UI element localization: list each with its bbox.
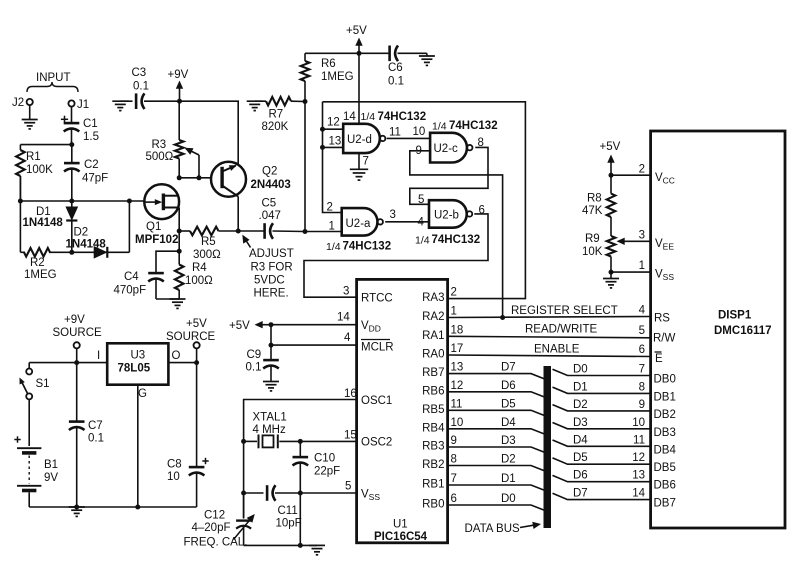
wire R6 junction down to C5 node: [304, 102, 306, 232]
svg-text:R5: R5: [201, 236, 216, 248]
svg-text:1: 1: [639, 260, 645, 272]
potentiometer R9 10K: [582, 233, 615, 272]
svg-text:MCLR: MCLR: [361, 342, 394, 354]
wire REGISTER SELECT RA2 to RS: [448, 317, 651, 318]
bus wire RB3 D3: [448, 447, 545, 453]
svg-text:2: 2: [639, 164, 645, 176]
svg-text:820K: 820K: [262, 121, 289, 133]
svg-text:1MEG: 1MEG: [321, 71, 354, 83]
svg-text:C7: C7: [88, 420, 103, 432]
node R6/R7: [303, 99, 308, 104]
bus wire DB1 D1: [553, 387, 651, 393]
U3 ground lead: [137, 385, 139, 507]
svg-text:G: G: [138, 388, 147, 400]
svg-text:+9V: +9V: [64, 314, 85, 326]
svg-text:U2-a: U2-a: [346, 218, 372, 230]
nand gate U2-d 74HC132: [327, 111, 426, 153]
switch S1: [20, 363, 50, 400]
svg-text:+5V: +5V: [186, 318, 207, 330]
bottom input rail: [19, 176, 21, 252]
svg-text:16: 16: [344, 388, 357, 400]
bus wire DB4 D4: [553, 440, 651, 446]
wire +5V down to U2-d pin 14: [358, 53, 360, 124]
bus wire RB0 D0: [448, 505, 545, 511]
svg-text:MPF102: MPF102: [135, 234, 178, 246]
svg-text:D5: D5: [501, 398, 516, 410]
node +5V/VCC: [609, 173, 614, 178]
svg-text:Q1: Q1: [146, 221, 161, 233]
svg-text:U3: U3: [131, 350, 146, 362]
svg-text:INPUT: INPUT: [36, 72, 71, 84]
svg-text:1.5: 1.5: [83, 131, 99, 143]
svg-text:FREQ. CAL.: FREQ. CAL.: [184, 537, 248, 549]
resistor R4 100ohm: [175, 231, 213, 299]
node input 12: [320, 127, 325, 132]
svg-text:U2-c: U2-c: [434, 143, 459, 155]
node VDD/C9: [269, 322, 274, 327]
svg-text:0.1: 0.1: [246, 362, 262, 374]
battery B1 9V: [14, 399, 58, 507]
svg-text:13: 13: [632, 470, 645, 482]
U1 right pin names: [422, 292, 445, 510]
node +5V source: [194, 360, 199, 365]
power +5V arrow at VDD: [229, 320, 271, 332]
svg-text:17: 17: [451, 343, 464, 355]
bus wire RB4 D4: [448, 429, 545, 435]
svg-text:D1: D1: [573, 381, 588, 393]
supply top rail: [29, 362, 107, 364]
svg-text:12: 12: [451, 380, 464, 392]
svg-text:C5: C5: [262, 198, 277, 210]
svg-text:10: 10: [451, 417, 464, 429]
svg-text:D0: D0: [501, 493, 516, 505]
node: C1/R1/C2 junction: [69, 142, 74, 147]
bus wire RB6 D6: [448, 392, 545, 398]
svg-text:1N4148: 1N4148: [23, 217, 64, 229]
svg-text:7: 7: [451, 473, 457, 485]
data bus bar: [544, 366, 552, 528]
svg-text:C9: C9: [247, 349, 262, 361]
svg-text:J2: J2: [12, 97, 24, 109]
bus wire RB2 D2: [448, 466, 545, 472]
svg-text:7: 7: [363, 156, 369, 168]
svg-text:DB1: DB1: [654, 391, 676, 403]
svg-text:C3: C3: [132, 67, 147, 79]
svg-text:D3: D3: [501, 435, 516, 447]
ground at display VSS: [603, 272, 619, 288]
svg-text:RB7: RB7: [422, 367, 444, 379]
svg-text:22pF: 22pF: [314, 466, 340, 478]
svg-text:R9: R9: [585, 233, 600, 245]
svg-text:C8: C8: [167, 459, 182, 471]
svg-text:10K: 10K: [582, 246, 603, 258]
wire OSC1: [244, 400, 357, 519]
svg-text:C12: C12: [204, 510, 225, 522]
oscillator bottom rail: [244, 544, 317, 546]
svg-text:C6: C6: [388, 62, 403, 74]
resistor R8 47K: [582, 175, 615, 236]
svg-text:DB4: DB4: [654, 444, 677, 456]
bus wire RB7 D7: [448, 374, 545, 380]
svg-text:6: 6: [639, 344, 645, 356]
ground at C3: [112, 101, 132, 110]
node bottom rail/C7: [74, 505, 79, 510]
svg-text:4: 4: [639, 305, 646, 317]
svg-text:3: 3: [639, 230, 645, 242]
svg-text:D2: D2: [501, 454, 516, 466]
node bottom rail/C10: [298, 543, 303, 548]
svg-text:0.1: 0.1: [133, 81, 149, 93]
display pin numbers: [632, 164, 645, 500]
wire READ/WRITE RA1 to R/W: [448, 336, 651, 338]
svg-text:D2: D2: [573, 399, 588, 411]
svg-text:D7: D7: [501, 362, 516, 374]
svg-text:12: 12: [327, 117, 340, 129]
transistor Q1 MPF102: [135, 184, 179, 246]
svg-text:RB0: RB0: [422, 499, 444, 511]
node R9/VSS: [609, 270, 614, 275]
svg-text:RTCC: RTCC: [361, 293, 393, 305]
svg-text:10: 10: [632, 417, 645, 429]
svg-text:5: 5: [639, 325, 645, 337]
node R2/D1/D2: [69, 250, 74, 255]
svg-text:300Ω: 300Ω: [193, 249, 221, 261]
wire Q1 source rail down: [178, 208, 180, 232]
node rail/R5: [177, 229, 182, 234]
svg-text:+5V: +5V: [600, 141, 621, 153]
node C11/C10/VSS: [298, 491, 303, 496]
svg-text:RA1: RA1: [422, 330, 444, 342]
wire VDD: [271, 324, 357, 326]
U1 labels: [361, 293, 428, 544]
U1 left pin numbers: [337, 286, 357, 493]
input bus wire: [20, 200, 144, 202]
svg-text:74HC132: 74HC132: [432, 234, 481, 246]
power +5V at gates: [346, 25, 367, 53]
resistor R7 820K: [262, 97, 306, 133]
svg-text:RA0: RA0: [422, 349, 444, 361]
svg-text:1MEG: 1MEG: [24, 269, 57, 281]
svg-text:9: 9: [639, 399, 645, 411]
display DISP1 DMC16117 box: [651, 131, 785, 528]
svg-text:11: 11: [389, 127, 401, 139]
svg-text:13: 13: [451, 362, 464, 374]
node crystal/C10/OSC2: [298, 439, 303, 444]
wire U2-d output to U2-c: [387, 137, 431, 139]
svg-text:D2: D2: [74, 227, 89, 239]
capacitor C6 0.1: [359, 46, 427, 88]
svg-text:D4: D4: [501, 417, 516, 429]
node input 13: [320, 145, 325, 150]
node rail/base wire: [177, 175, 182, 180]
svg-text:100K: 100K: [26, 164, 53, 176]
svg-text:R1: R1: [26, 151, 41, 163]
svg-text:11: 11: [633, 434, 645, 446]
svg-text:9: 9: [451, 435, 457, 447]
svg-text:RB5: RB5: [422, 404, 444, 416]
capacitor C11 10pF: [267, 485, 357, 529]
ground at R7: [247, 101, 266, 110]
svg-text:0.1: 0.1: [88, 433, 104, 445]
capacitor C1 1.5: [61, 107, 99, 145]
resistor R1 100K: [16, 145, 53, 201]
nand gate U2-c 74HC132: [416, 120, 498, 163]
svg-text:+5V: +5V: [229, 320, 250, 332]
wire RA3 feedback net: [323, 102, 526, 299]
svg-text:RS: RS: [654, 313, 670, 325]
svg-text:1/4: 1/4: [415, 235, 430, 247]
bus wire DB2 D2: [553, 405, 651, 411]
svg-text:2: 2: [451, 287, 457, 299]
connector J1: [68, 99, 89, 111]
wire MCLR: [271, 344, 357, 346]
node bottom rail/G lead: [135, 505, 140, 510]
regulator U3 78L05: [97, 343, 181, 400]
node RA2/U2-c pin9 net: [500, 315, 505, 320]
nand gate U2-a 74HC132: [326, 202, 396, 254]
node +5V/C6: [357, 51, 362, 56]
svg-text:14: 14: [337, 312, 350, 324]
svg-text:14: 14: [343, 111, 356, 123]
node OSC1 rail/C11: [241, 491, 246, 496]
IC U1 PIC16C54 box: [357, 279, 448, 542]
svg-text:DB0: DB0: [654, 374, 676, 386]
svg-text:Q2: Q2: [262, 166, 277, 178]
supply bottom rail: [29, 506, 196, 508]
wire Q2 collector down: [237, 196, 239, 231]
bus wire DB5 D5: [553, 458, 651, 464]
wire U2-a output 3 to U2-b input 4: [385, 221, 429, 223]
wire VCC: [611, 174, 651, 176]
svg-text:+9V: +9V: [168, 69, 189, 81]
svg-text:U2-d: U2-d: [347, 134, 372, 146]
display pin names: [653, 172, 676, 510]
capacitor C9 0.1: [246, 325, 279, 382]
svg-text:2N4403: 2N4403: [251, 179, 291, 191]
svg-text:470pF: 470pF: [114, 285, 147, 297]
svg-text:C11: C11: [278, 505, 298, 517]
svg-text:OSC2: OSC2: [361, 437, 392, 449]
svg-text:8: 8: [451, 454, 457, 466]
diode D2 1N4148: [66, 227, 108, 258]
svg-text:C10: C10: [314, 453, 335, 465]
resistor R6 1MEG: [301, 53, 354, 101]
capacitor C3 0.1: [132, 67, 180, 109]
wire U2-d input 12: [323, 128, 344, 130]
svg-text:11: 11: [451, 398, 463, 410]
ground at C6: [419, 53, 435, 65]
svg-text:SOURCE: SOURCE: [53, 327, 103, 339]
bus wire DB6 D6: [553, 475, 651, 481]
node rail/C4 branch: [177, 249, 182, 254]
svg-text:ENABLE: ENABLE: [534, 344, 580, 356]
capacitor C5 .047: [238, 198, 304, 239]
svg-text:OSC1: OSC1: [361, 395, 392, 407]
wire to R1: [20, 144, 71, 146]
svg-text:O: O: [172, 350, 181, 362]
crystal XTAL1 4MHz: [244, 412, 357, 449]
svg-text:8: 8: [639, 381, 645, 393]
svg-text:5: 5: [345, 481, 351, 493]
capacitor C2 47pF: [64, 145, 108, 201]
svg-text:D4: D4: [573, 434, 588, 446]
svg-text:R3: R3: [152, 139, 167, 151]
node Q2 collector/R5/C5: [236, 229, 241, 234]
wire D2 up to bus: [128, 201, 130, 252]
svg-text:R7: R7: [269, 109, 284, 121]
svg-text:D0: D0: [573, 364, 588, 376]
wire U2-d input 13: [323, 146, 344, 148]
svg-text:4 MHz: 4 MHz: [253, 424, 286, 436]
node C5/U2-a pin1/bias: [303, 229, 308, 234]
wire +9V to Q2 emitter: [180, 101, 239, 163]
svg-text:1N4148: 1N4148: [66, 239, 107, 251]
svg-text:4: 4: [344, 332, 351, 344]
svg-text:HERE.: HERE.: [254, 288, 289, 300]
wire VSS with C11: [244, 492, 264, 494]
bus wire DB3 D3: [553, 423, 651, 429]
bus wire RB5 D5: [448, 410, 545, 416]
svg-text:D6: D6: [573, 470, 588, 482]
node wiper/base wire: [197, 175, 202, 180]
bus wire DB0 D0: [553, 369, 651, 375]
svg-text:R6: R6: [321, 58, 336, 70]
svg-text:D7: D7: [573, 488, 588, 500]
capacitor C8 10: [167, 363, 209, 507]
svg-text:DB2: DB2: [654, 409, 676, 421]
svg-text:R4: R4: [192, 262, 207, 274]
svg-text:4: 4: [418, 217, 425, 229]
svg-text:READ/WRITE: READ/WRITE: [525, 324, 598, 336]
svg-text:1/4: 1/4: [326, 241, 341, 253]
svg-text:10: 10: [167, 471, 180, 483]
svg-text:100Ω: 100Ω: [185, 275, 213, 287]
svg-text:6: 6: [451, 493, 457, 505]
node OSC1 rail/crystal: [241, 439, 246, 444]
wire RA3 net down to U2-a pin 2: [323, 102, 342, 213]
svg-text:REGISTER SELECT: REGISTER SELECT: [511, 305, 618, 317]
svg-text:+5V: +5V: [346, 25, 367, 37]
svg-text:RA3: RA3: [422, 292, 444, 304]
wire +5V to R6: [305, 52, 359, 54]
potentiometer R3 500ohm: [146, 101, 184, 178]
node +9V/rail: [74, 360, 79, 365]
R9 wiper from VEE: [617, 238, 651, 245]
svg-text:DB5: DB5: [654, 462, 676, 474]
svg-text:DB6: DB6: [654, 480, 676, 492]
R3 wiper arm: [185, 148, 200, 178]
svg-text:DMC16117: DMC16117: [714, 325, 772, 337]
ground at C9: [263, 382, 279, 391]
U1 right pin numbers: [451, 287, 464, 505]
svg-text:500Ω: 500Ω: [146, 151, 174, 163]
svg-text:1/4: 1/4: [361, 111, 376, 123]
capacitor C10 22pF: [293, 441, 341, 545]
svg-text:S1: S1: [36, 378, 50, 390]
svg-text:RB2: RB2: [422, 459, 444, 471]
ground at R4/C4: [170, 299, 186, 308]
node on bus at R1: [18, 199, 23, 204]
node +9V rail: [177, 99, 182, 104]
svg-text:10pF: 10pF: [276, 518, 302, 530]
wire VSS display: [611, 271, 651, 273]
svg-text:E: E: [655, 353, 663, 365]
wire U2-c input 9 from RA2: [410, 151, 503, 318]
svg-text:RA2: RA2: [422, 311, 444, 323]
node on bus at C2/D1: [69, 199, 74, 204]
svg-text:12: 12: [632, 452, 645, 464]
wire U2-c output 8 to U2-b input 5: [410, 147, 488, 204]
wire ENABLE RA0 to E: [448, 355, 651, 357]
trimmer C12 4-20pF: [184, 493, 255, 549]
svg-text:C2: C2: [84, 159, 99, 171]
svg-text:15: 15: [344, 430, 357, 442]
DISP1 labels: [714, 310, 772, 338]
svg-text:13: 13: [329, 136, 342, 148]
capacitor C7 0.1: [69, 363, 104, 507]
bus wire DB7 D7: [553, 493, 651, 499]
svg-text:DB3: DB3: [654, 427, 676, 439]
svg-text:78L05: 78L05: [118, 363, 151, 375]
terminal +5V SOURCE: [166, 318, 216, 363]
svg-text:5VDC: 5VDC: [254, 275, 285, 287]
svg-text:U1: U1: [393, 519, 408, 531]
resistor R2 1MEG: [24, 248, 57, 281]
svg-text:74HC132: 74HC132: [378, 111, 427, 123]
svg-text:RB1: RB1: [422, 479, 444, 491]
svg-text:1: 1: [451, 306, 457, 318]
svg-text:10: 10: [413, 126, 426, 138]
svg-text:R2: R2: [30, 257, 45, 269]
svg-text:PIC16C54: PIC16C54: [374, 531, 428, 543]
svg-text:.047: .047: [259, 210, 281, 222]
svg-text:D5: D5: [573, 452, 588, 464]
annotation ADJUST R3 FOR 5VDC HERE with arrow: [242, 235, 293, 300]
ground at oscillator: [309, 545, 325, 554]
terminal +9V SOURCE: [53, 314, 103, 363]
node MCLR/C9: [269, 343, 274, 348]
svg-text:9V: 9V: [44, 472, 58, 484]
svg-text:R8: R8: [587, 193, 602, 205]
svg-text:47pF: 47pF: [82, 173, 108, 185]
svg-text:J1: J1: [77, 99, 89, 111]
svg-text:D6: D6: [501, 380, 516, 392]
power +9V: [168, 69, 189, 101]
svg-text:ADJUST: ADJUST: [249, 248, 294, 260]
diode D1 1N4148: [23, 201, 78, 252]
svg-text:DB7: DB7: [654, 498, 676, 510]
svg-text:RB6: RB6: [422, 385, 444, 397]
svg-text:4–20pF: 4–20pF: [192, 522, 231, 534]
svg-text:D1: D1: [501, 473, 516, 485]
svg-text:3: 3: [343, 286, 349, 298]
svg-text:C1: C1: [83, 118, 98, 130]
wire U2-b output 6 to U1 RTCC: [304, 214, 488, 297]
svg-text:RB3: RB3: [422, 441, 444, 453]
svg-text:1/4: 1/4: [432, 121, 447, 133]
svg-text:74HC132: 74HC132: [343, 241, 392, 253]
wire U3 output: [168, 362, 196, 364]
svg-text:XTAL1: XTAL1: [253, 412, 287, 424]
svg-text:I: I: [97, 350, 100, 362]
resistor R5 300ohm: [179, 227, 238, 261]
svg-text:U2-b: U2-b: [434, 210, 459, 222]
svg-text:RB4: RB4: [422, 422, 445, 434]
connector J2: [12, 97, 33, 120]
svg-text:C4: C4: [124, 271, 139, 283]
label DATA BUS with arrow: [465, 522, 542, 535]
svg-text:3: 3: [390, 209, 396, 221]
